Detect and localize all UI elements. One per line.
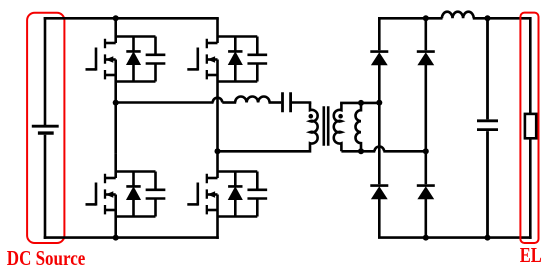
diode D7 (left bottom) (370, 186, 388, 199)
body diode D1 (126, 37, 140, 82)
wire hop to right column (383, 150, 426, 153)
node right column bottom (423, 235, 429, 241)
node right column top (423, 15, 429, 21)
capacitor Cr (series resonant) (283, 92, 291, 112)
wire Q3 source to bottom rail (114, 217, 117, 238)
wire output top rail (378, 17, 443, 20)
svg-text:DC Source: DC Source (7, 246, 86, 270)
transformer T1 primary polarity dot (309, 114, 314, 119)
EL red box (520, 13, 538, 243)
wire secondary top to rectifier (340, 102, 379, 105)
wire tank from node A (116, 101, 214, 104)
wire Q4 source to bottom rail (216, 217, 219, 239)
wire top rail (DC bus +) (44, 17, 219, 20)
wire left leg (Q1 source to Q3 drain) (114, 82, 117, 154)
transformer T1 primary winding (218, 103, 318, 152)
transformer T1 secondary polarity dot (338, 114, 343, 119)
wire hop over right leg (213, 98, 223, 103)
wire Q3 cell bus (116, 172, 156, 217)
wire Q4 cell bus (218, 172, 258, 217)
transistor Q4 (187, 153, 217, 216)
node A left leg midpoint (113, 100, 119, 106)
node top rail / Q1 drain (113, 15, 119, 21)
inductor Lr (series resonant) (235, 97, 270, 103)
wire Lr to Cr (269, 101, 282, 104)
node secondary bottom at right column (423, 148, 429, 154)
wire rectifier right column (424, 18, 427, 237)
svg-text:EL: EL (520, 243, 542, 267)
wire hop to inductor (222, 101, 236, 104)
node Cf bottom (485, 235, 491, 241)
capacitor C3 (146, 172, 166, 217)
wire bottom rail (DC bus -) (44, 236, 219, 239)
capacitor Cf (output filter) (477, 18, 498, 237)
wire Q2 cell bus (218, 37, 258, 82)
wire load bottom lead (529, 138, 532, 239)
transformer T1 secondary winding (334, 103, 342, 151)
wire Cr to transformer (292, 101, 311, 104)
node secondary top at left column (376, 100, 382, 106)
node B right leg / primary return (215, 148, 221, 154)
node Lm top (358, 100, 364, 106)
capacitor C1 (146, 37, 166, 82)
capacitor C2 (247, 37, 267, 82)
inductor Lm (parallel) (356, 103, 361, 151)
wire Q1 cell bus (116, 37, 156, 82)
body diode D4 (228, 172, 242, 217)
wire rectifier left column (378, 18, 381, 237)
wire right leg (Q2 source to Q4 drain) (216, 82, 219, 154)
transformer T1 core (324, 106, 328, 145)
resistor EL load (525, 114, 536, 138)
battery B1 (DC source) (32, 17, 59, 239)
DC source red box (27, 13, 64, 243)
transistor Q1 (86, 18, 116, 81)
diode D5 (left top) (370, 52, 388, 65)
body diode D2 (228, 37, 242, 82)
body diode D3 (126, 172, 140, 217)
diode D8 (right bottom) (417, 186, 435, 199)
node Cf top (485, 15, 491, 21)
diode D6 (right top) (417, 52, 435, 65)
wire secondary bottom to hop (341, 150, 375, 153)
capacitor C4 (247, 172, 267, 217)
wire hop over left column (375, 147, 385, 152)
node Lm bottom (358, 148, 364, 154)
transistor Q3 (86, 153, 116, 216)
wire Lf to load (473, 18, 531, 114)
transistor Q2 (187, 18, 217, 81)
wire output bottom rail (378, 236, 532, 239)
inductor Lf (output filter) (442, 12, 474, 19)
node bottom rail / Q3 source (113, 235, 119, 241)
